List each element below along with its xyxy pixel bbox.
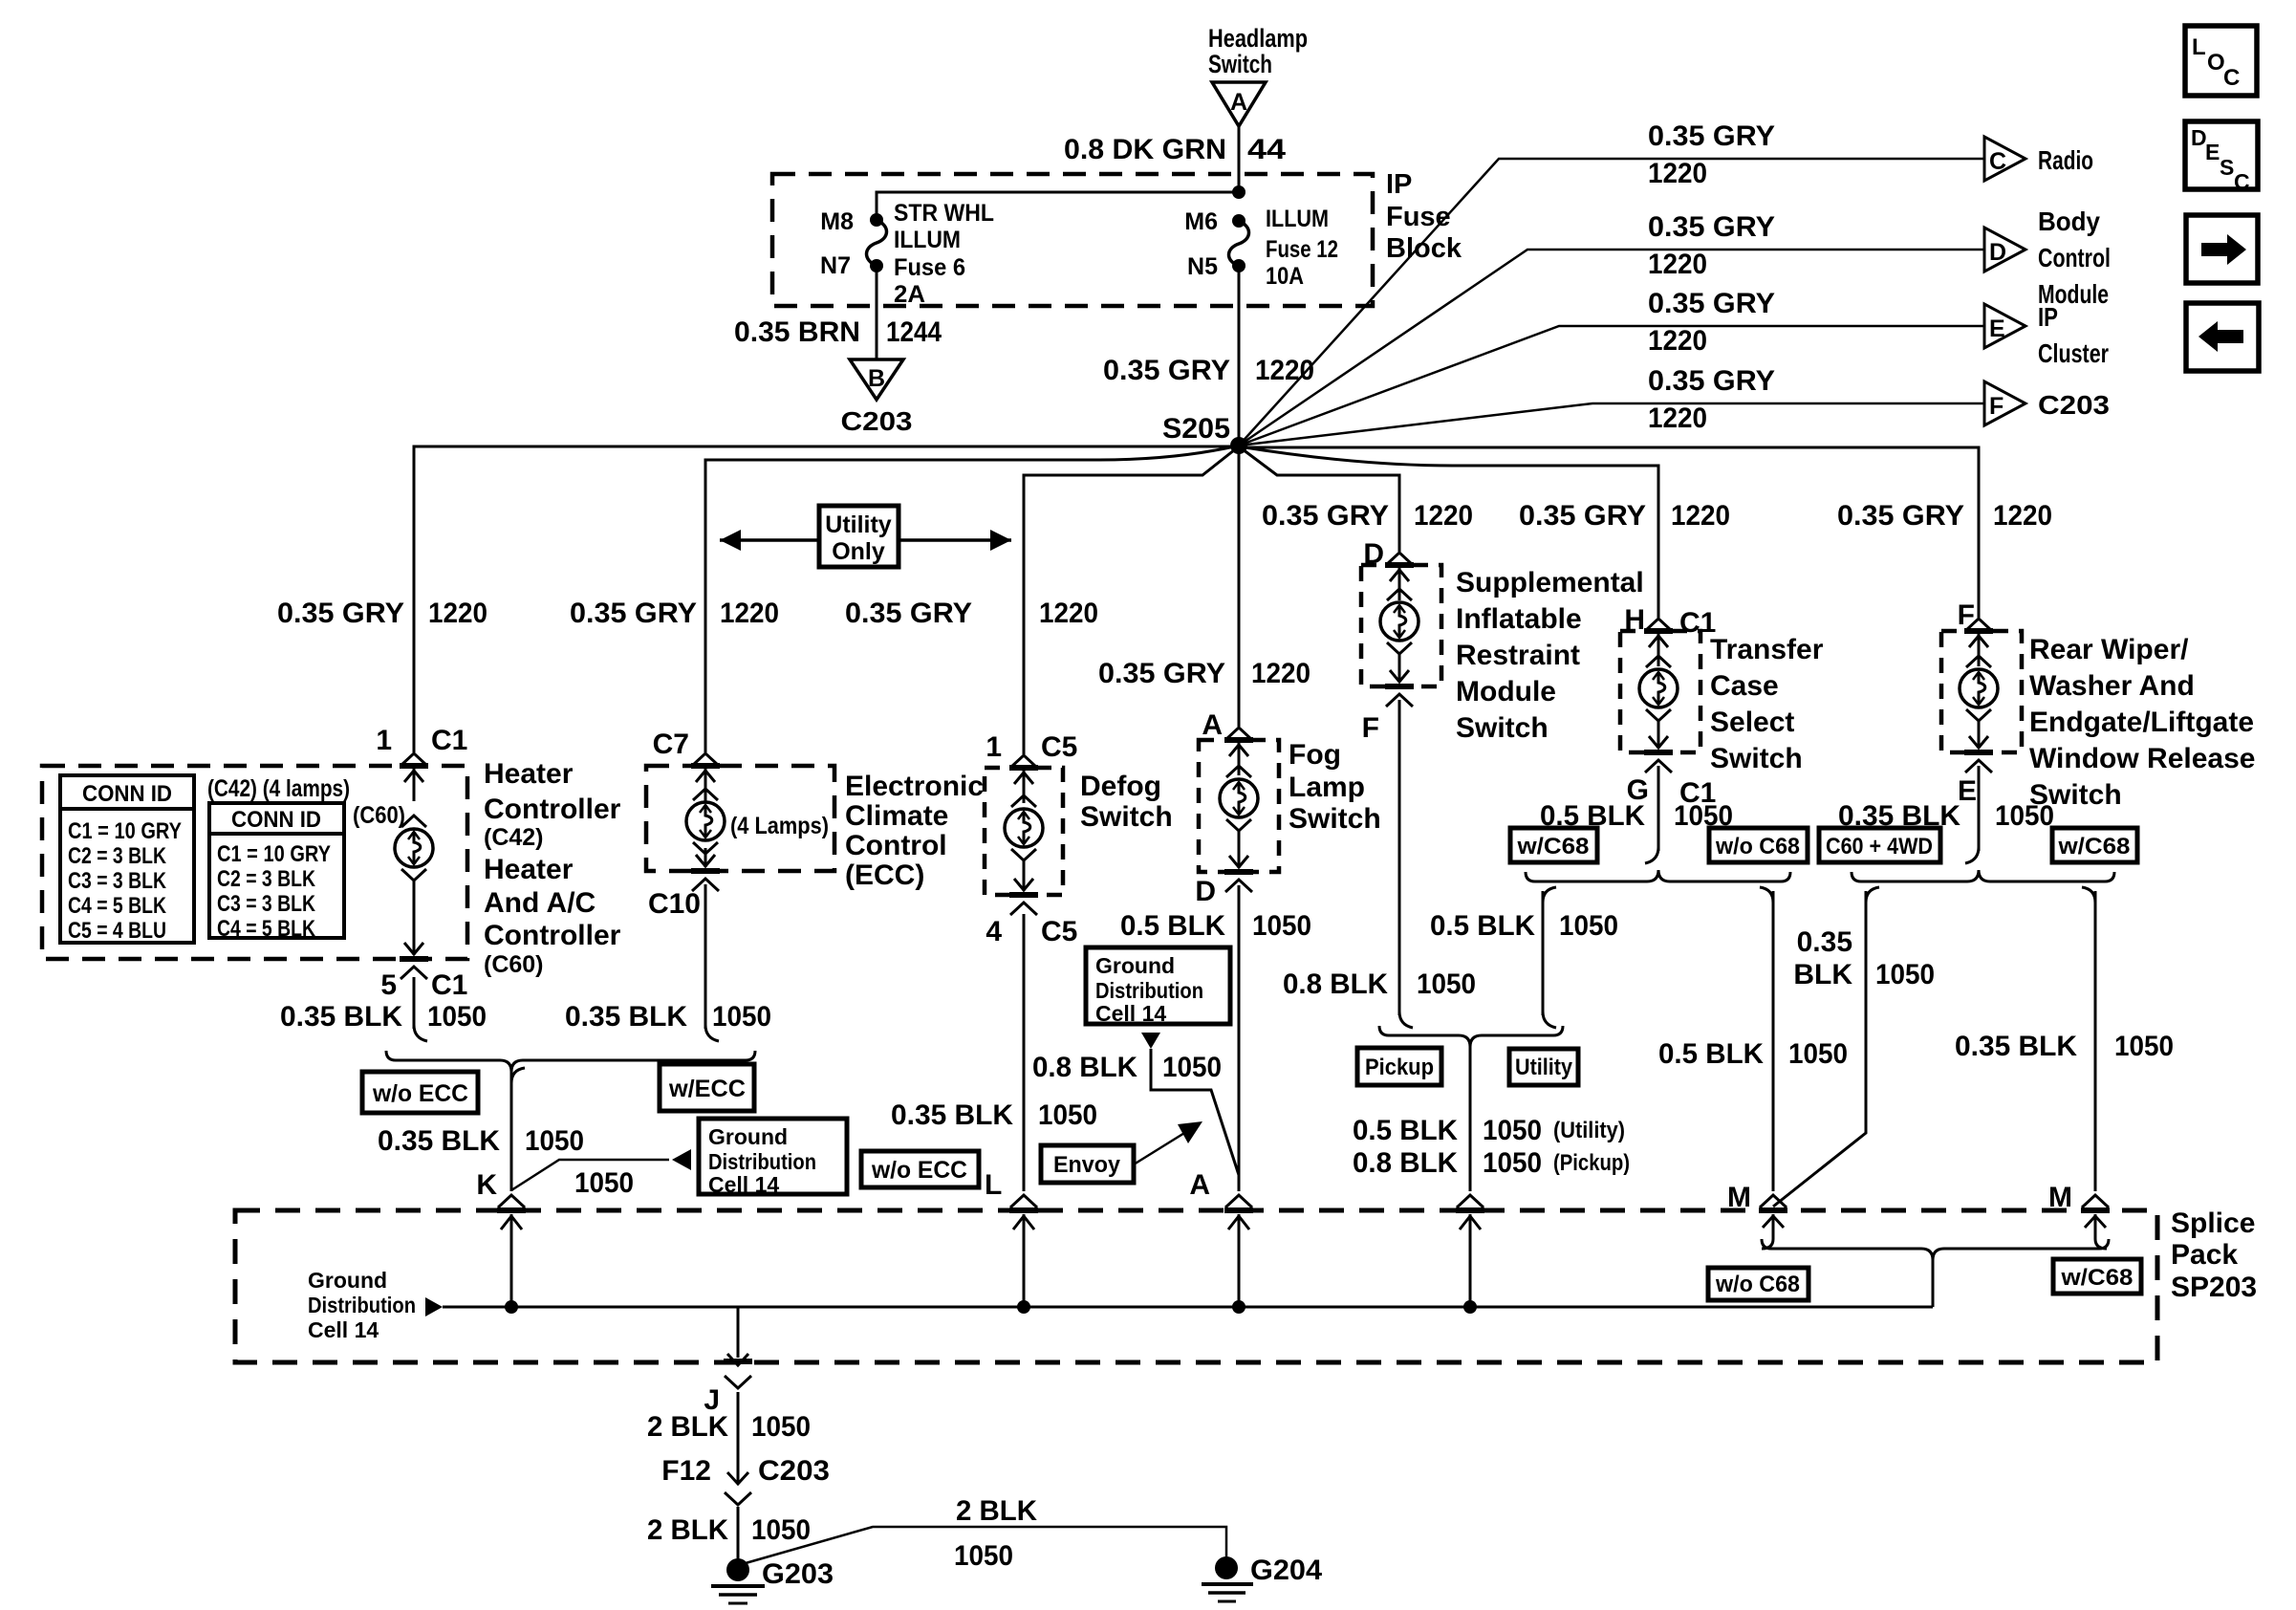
legend box right arrow [2186,215,2258,283]
conn id table 1 [60,775,194,944]
(4 Lamps) note [730,813,829,839]
fuse F6 (STR WHL ILLUM Fuse 6 2A) [867,213,887,272]
svg-text:Fuse: Fuse [1386,202,1451,232]
wire label 0.8 BLK 1050 (Pickup) [1353,1147,1630,1179]
heater controller box (dashed) [42,766,467,959]
svg-text:O: O [2207,50,2225,76]
svg-text:Distribution: Distribution [708,1149,816,1174]
wire label 0.8 BLK 1050 (SIR) [1283,968,1476,1000]
splice entry pickup-utility [1456,1195,1484,1307]
w/C68 tag box (right) [2052,828,2137,862]
svg-text:Control: Control [2038,243,2111,272]
node bus-A [1232,1300,1245,1314]
wire label 0.35 BLK 1050 (C60+4WD branch) [1793,926,1935,990]
wire 2 BLK 1050 (J to C203) [737,1392,740,1484]
splice entry A [1224,1195,1253,1307]
svg-text:1050: 1050 [1483,1147,1542,1179]
svg-text:IP: IP [2038,302,2058,332]
wire label 0.35 GRY 1220 (ECC) [570,598,779,629]
wire gather brace (heater+ECC) [386,1051,755,1072]
svg-text:And A/C: And A/C [484,887,596,919]
svg-text:w/o C68: w/o C68 [1715,1272,1800,1297]
wire label 0.5 BLK 1050 (fog) [1120,910,1311,942]
wire S205 down to fog lamp switch [1238,446,1241,727]
svg-text:C5 = 4 BLU: C5 = 4 BLU [68,918,166,944]
svg-text:A: A [1230,89,1247,116]
svg-text:1050: 1050 [525,1125,584,1157]
connector A (fog top) [1202,709,1223,741]
fuse F12 (ILLUM Fuse 12 10A) [1229,214,1249,272]
svg-text:F: F [1989,393,2004,420]
svg-text:Distribution: Distribution [1095,978,1203,1003]
svg-text:M8: M8 [820,208,854,235]
SIR lamp connector column [1380,553,1419,707]
svg-text:4: 4 [986,916,1002,947]
svg-text:0.5 BLK: 0.5 BLK [1430,910,1535,942]
svg-text:0.35 GRY: 0.35 GRY [1648,211,1775,243]
pin N5 [1187,253,1218,280]
svg-text:2A: 2A [894,281,925,308]
svg-text:C3 = 3 BLK: C3 = 3 BLK [68,868,167,894]
wire label 0.5 BLK 1050 (w/C68 branch) [1430,910,1618,942]
svg-text:Electronic: Electronic [845,771,984,802]
fuse 12 label [1266,206,1338,290]
SIR switch box (dashed) [1361,565,1441,686]
w/o ECC tag box 2 [861,1151,979,1187]
svg-text:Rear Wiper/: Rear Wiper/ [2029,634,2189,665]
svg-text:C4 = 5 BLK: C4 = 5 BLK [217,916,316,942]
w/o C68 tag box [1709,828,1808,862]
svg-text:w/o ECC: w/o ECC [871,1157,967,1184]
svg-text:2 BLK: 2 BLK [647,1514,728,1546]
wire w/C68 branch to pickup-utility brace [1543,887,1556,1028]
svg-text:0.8 BLK: 0.8 BLK [1032,1052,1137,1083]
svg-text:0.8 BLK: 0.8 BLK [1353,1147,1458,1179]
wire 1050 below heater [414,977,427,1041]
connector triangle C [1984,137,2025,181]
svg-text:1050: 1050 [1483,1115,1542,1146]
svg-text:2 BLK: 2 BLK [647,1411,728,1443]
svg-text:(C42): (C42) [484,824,544,851]
wire label 0.35 BLK 1050 (defog) [891,1099,1097,1131]
connector H C1 (transfer top) [1624,604,1716,639]
svg-text:Defog: Defog [1080,771,1161,802]
ECC box (dashed) [646,766,834,871]
svg-text:C: C [1989,148,2006,175]
svg-text:0.35 GRY: 0.35 GRY [1837,500,1964,532]
connector triangle B (C203) [850,359,903,400]
pointer from cell 14 into fog ground wire [1141,1033,1239,1175]
svg-text:1050: 1050 [2114,1031,2174,1062]
svg-text:N5: N5 [1187,253,1218,280]
svg-text:S: S [2220,155,2234,180]
wire label 0.35 BLK 1050 (w/C68 right) [1955,1031,2174,1062]
svg-text:0.5 BLK: 0.5 BLK [1658,1038,1764,1070]
svg-text:C2 = 3 BLK: C2 = 3 BLK [217,866,316,892]
svg-text:0.35 GRY: 0.35 GRY [277,598,404,629]
wire label 0.35 GRY 1220 (BCM) [1648,211,1775,280]
svg-text:M6: M6 [1184,208,1218,235]
C60+4WD tag box [1819,828,1940,862]
Splice Pack SP203 label [2171,1207,2257,1303]
w/o ECC tag box [362,1072,478,1113]
svg-text:1050: 1050 [1875,959,1935,990]
svg-text:Switch: Switch [1456,712,1549,744]
wire label 2 BLK 1050 (upper) [647,1411,811,1443]
IP fuse block (dashed box) [772,174,1373,306]
svg-text:Switch: Switch [1080,801,1173,833]
splice terminal M label (right) [2048,1182,2072,1213]
svg-text:L: L [2192,34,2206,60]
svg-text:1050: 1050 [712,1001,771,1033]
wire label 0.35 GRY 1220 (defog) [845,598,1098,629]
pin M8 [820,208,854,235]
svg-text:0.5 BLK: 0.5 BLK [1353,1115,1458,1146]
svg-text:44: 44 [1247,134,1286,165]
transfer case switch box (dashed) [1620,631,1700,752]
svg-text:5: 5 [380,969,397,1001]
headlamp switch label [1208,24,1308,78]
svg-text:STR WHL: STR WHL [894,200,994,227]
svg-text:0.35 BLK: 0.35 BLK [565,1001,687,1033]
node bus-pickup [1463,1300,1477,1314]
transfer gather brace [1526,870,1790,881]
svg-text:Inflatable: Inflatable [1456,603,1582,635]
svg-text:(C60): (C60) [484,951,544,978]
svg-text:Fuse 6: Fuse 6 [894,254,965,281]
ground distribution cell 14 box (left) [699,1119,847,1197]
svg-text:w/o ECC: w/o ECC [372,1080,468,1107]
svg-text:0.35 BLK: 0.35 BLK [280,1001,402,1033]
svg-text:Utility: Utility [1515,1055,1573,1080]
splice entry L [1009,1195,1038,1307]
wire S205 to defog switch C5 [1024,446,1239,754]
Radio label [2038,145,2093,175]
splice bus wire [443,1306,1933,1309]
svg-text:0.35 GRY: 0.35 GRY [1098,658,1225,689]
wire label 0.35 BLK 1050 (rear wiper) [1838,800,2054,832]
wire 1050 from fog to splice A [1238,885,1241,1191]
svg-text:D: D [1363,538,1384,570]
svg-text:Body: Body [2038,207,2100,236]
(C60) pin label [353,802,405,829]
wire C60+4WD branch to splice M [1773,887,1879,1207]
connector C7 label [653,729,689,760]
splice terminal J [704,1384,720,1416]
svg-text:Pickup: Pickup [1365,1055,1434,1080]
svg-text:Cluster: Cluster [2038,338,2109,368]
splice entry M right [2081,1195,2110,1249]
svg-text:Controller: Controller [484,794,621,825]
fog lamp switch box (dashed) [1199,740,1279,872]
wire label 0.35 BLK 1050 (ECC) [565,1001,771,1033]
wire below rear wiper [1965,766,1979,863]
wire S205 to SIR module switch [1239,446,1399,552]
svg-text:C203: C203 [841,406,913,436]
svg-text:Lamp: Lamp [1289,772,1365,803]
wire to IP cluster (E) [1239,326,1984,446]
connector G C1 (transfer bottom) [1627,774,1717,809]
ECC label [845,771,984,891]
svg-text:Climate: Climate [845,800,948,832]
connector F (rear wiper top) [1958,599,1975,631]
wire 0.5 BLK 1050 (transfer) [1645,766,1658,863]
svg-text:(4 Lamps): (4 Lamps) [730,813,829,839]
w/C68 tag box (left) [1510,828,1597,862]
svg-text:G203: G203 [762,1558,834,1590]
svg-text:1050: 1050 [1252,910,1311,942]
wire label 0.35 GRY 1220 (rear wiper) [1837,500,2052,532]
svg-text:1: 1 [376,725,392,756]
svg-text:C203: C203 [758,1455,830,1487]
svg-text:C: C [2234,169,2250,194]
splice entry M left [1759,1195,1787,1249]
svg-text:C7: C7 [653,729,689,760]
svg-text:(C42) (4 lamps): (C42) (4 lamps) [207,775,350,802]
ground G204 [1202,1555,1322,1601]
C203 label at F [2038,390,2110,420]
svg-text:Supplemental: Supplemental [1456,567,1644,598]
svg-text:IP: IP [1386,169,1412,200]
wire to radio (C) [1239,159,1984,446]
node bus-K [505,1300,518,1314]
wire label 0.35 GRY 1220 (F C203) [1648,365,1775,434]
wire label 0.5 BLK 1050 (M branch) [1658,1038,1848,1070]
svg-text:Utility: Utility [825,511,892,538]
svg-text:Switch: Switch [1208,50,1272,78]
svg-text:D: D [1195,876,1216,907]
wire w/o C68 branch to splice M [1760,887,1773,1191]
ground distribution cell 14 box (right) [1086,947,1230,1026]
svg-text:Washer And: Washer And [2029,670,2195,702]
svg-text:1050: 1050 [1559,910,1618,942]
pin M6 [1184,208,1218,235]
svg-text:Ground: Ground [308,1268,387,1293]
svg-text:0.35 GRY: 0.35 GRY [570,598,697,629]
svg-text:1220: 1220 [1648,325,1707,357]
svg-text:(C60): (C60) [353,802,405,829]
svg-text:F: F [1362,712,1379,744]
connector E (rear wiper bottom) [1958,775,1977,807]
w/C68 tag (in splice) [2053,1259,2141,1294]
svg-text:1244: 1244 [886,316,942,348]
svg-text:0.35 GRY: 0.35 GRY [845,598,972,629]
wire to C203 (F) [1239,403,1985,446]
svg-text:C10: C10 [648,888,701,920]
svg-text:Cell 14: Cell 14 [308,1317,379,1342]
svg-text:Restraint: Restraint [1456,640,1580,671]
heater controller label [484,758,621,978]
wire 1244 from N7 to C203 [876,266,878,359]
pickup-utility gather brace [1379,1026,1563,1047]
svg-text:Heater: Heater [484,854,574,885]
svg-text:C1: C1 [431,725,467,756]
Utility tag box [1509,1049,1578,1085]
svg-text:G204: G204 [1250,1555,1322,1586]
splice M gather brace [1762,1239,2109,1307]
splice terminal M label (left) [1727,1182,1751,1213]
legend box LOC [2185,26,2257,96]
svg-text:0.8 BLK: 0.8 BLK [1283,968,1388,1000]
svg-text:ILLUM: ILLUM [894,227,961,253]
svg-text:L: L [985,1169,1002,1201]
svg-text:(ECC): (ECC) [845,859,924,891]
wire label 0.35 GRY 1220 (heater) [277,598,487,629]
ground distribution cell 14 note (in splice pack) [308,1268,443,1342]
ground G203 [711,1558,834,1603]
svg-text:Control: Control [845,830,947,861]
wire 2 BLK 1050 to G204 [746,1527,1226,1563]
(C42)(4 lamps) note [207,775,350,802]
svg-text:K: K [476,1169,497,1201]
wire S205 to heater controller C1 [414,446,1239,752]
splice terminal L [985,1169,1002,1201]
svg-text:Envoy: Envoy [1053,1152,1121,1178]
svg-text:C203: C203 [2038,390,2110,420]
wire S205 to rear wiper switch [1239,447,1979,618]
wire label 2 BLK 1050 (lower) [647,1514,811,1546]
wire pickup-utility to splice [1469,1045,1472,1191]
svg-text:(Pickup): (Pickup) [1553,1150,1630,1176]
pin 1 / connector C5 (defog top) [986,731,1077,763]
svg-text:1220: 1220 [1414,500,1473,532]
svg-text:Heater: Heater [484,758,574,790]
wire label 0.35 GRY 1220 (SIR) [1262,500,1473,532]
wire 44 from A to fuse block [1238,126,1241,192]
pin N7 [820,252,851,279]
wire 1220 from N5 to S205 [1238,266,1241,446]
wire label 0.8 DK GRN 44 [1064,134,1286,165]
svg-text:Fog: Fog [1289,739,1341,771]
wire label 0.5 BLK 1050 (Utility) [1353,1115,1625,1146]
pin 1 / connector C1 (heater top) [376,725,467,756]
svg-text:C3 = 3 BLK: C3 = 3 BLK [217,891,316,917]
wire label 0.35 GRY 1220 (transfer) [1519,500,1730,532]
C203 label under B [841,406,913,436]
svg-text:0.35 GRY: 0.35 GRY [1648,120,1775,152]
svg-text:Cell 14: Cell 14 [708,1172,779,1197]
wire 1050 from defog to splice L [1023,914,1026,1191]
svg-text:w/ECC: w/ECC [668,1076,746,1102]
svg-text:1220: 1220 [1251,658,1310,689]
Fog Lamp Switch label [1289,739,1381,835]
svg-text:Headlamp: Headlamp [1208,24,1308,53]
svg-text:10A: 10A [1266,263,1304,290]
svg-text:0.35 BLK: 0.35 BLK [891,1099,1013,1131]
svg-text:C5: C5 [1041,731,1077,763]
rear wiper switch box (dashed) [1941,631,2022,752]
svg-text:1220: 1220 [1648,402,1707,434]
rear wiper gather brace [1852,870,2114,881]
svg-text:1220: 1220 [1648,158,1707,189]
svg-text:BLK: BLK [1793,959,1852,990]
svg-text:Case: Case [1710,670,1779,702]
svg-text:0.35 GRY: 0.35 GRY [1519,500,1646,532]
wire label 0.35 GRY 1220 (IP cluster) [1648,288,1775,357]
conn id table 2 [209,803,344,942]
wire 1050 below ECC [705,884,719,1041]
connector triangle F [1984,381,2025,425]
wire S205 to ECC C7 [705,446,1239,752]
wire 1050 from SIR to brace [1399,700,1413,1028]
svg-text:Fuse 12: Fuse 12 [1266,236,1338,263]
IP fuse block label [1386,169,1462,264]
node bus-L [1017,1300,1030,1314]
Utility Only callout box with arrows [720,506,1011,567]
SIR label [1456,567,1644,744]
svg-text:Controller: Controller [484,920,621,951]
svg-text:w/C68: w/C68 [2060,1265,2133,1291]
svg-text:SP203: SP203 [2171,1272,2257,1303]
Transfer Case Select Switch label [1710,634,1824,774]
connector triangle E [1984,304,2025,348]
wire to body control module (D) [1239,250,1984,446]
svg-text:1050: 1050 [1038,1099,1097,1131]
svg-text:Only: Only [832,538,885,565]
svg-text:C4 = 5 BLK: C4 = 5 BLK [68,893,167,919]
svg-text:C: C [2223,65,2240,91]
svg-text:1050: 1050 [1162,1052,1222,1083]
wire label 0.35 BRN 1244 [734,316,942,348]
w/o C68 tag (in splice) [1708,1268,1809,1300]
connector C10 label [648,888,701,920]
ECC lamp connector column [686,753,725,891]
wire 1050 to splice K [511,1068,525,1191]
svg-text:1050: 1050 [1995,800,2054,832]
legend box DESC [2185,121,2258,194]
Body Control Module label [2038,207,2111,309]
svg-text:F12: F12 [661,1455,711,1487]
svg-text:C1: C1 [431,969,467,1001]
svg-text:1220: 1220 [428,598,487,629]
wire label 0.35 GRY 1220 (main) [1103,355,1314,386]
splice terminal K [476,1169,497,1201]
fog lamp connector column [1220,728,1258,892]
transfer case lamp connector column [1639,619,1678,772]
svg-text:Switch: Switch [1289,803,1381,835]
svg-text:Radio: Radio [2038,145,2093,175]
svg-text:1: 1 [986,731,1002,763]
w/ECC tag box [660,1064,754,1111]
wire from junction to fuse 6 [877,192,1239,216]
splice entry K [497,1195,526,1307]
svg-text:0.5 BLK: 0.5 BLK [1120,910,1225,942]
svg-text:E: E [2205,140,2220,164]
svg-text:1050: 1050 [1788,1038,1848,1070]
Defog Switch label [1080,771,1173,833]
svg-text:S205: S205 [1162,413,1230,445]
svg-text:0.35: 0.35 [1797,926,1852,958]
svg-text:D: D [1989,239,2006,266]
svg-text:1220: 1220 [1671,500,1730,532]
wire label 1050 (G204) [954,1540,1013,1572]
heater controller connector column [395,753,433,979]
svg-text:CONN ID: CONN ID [82,781,172,807]
wire label 0.35 GRY 1220 (fog) [1098,658,1310,689]
svg-text:A: A [1202,709,1223,741]
svg-text:1050: 1050 [574,1167,634,1199]
svg-text:C1 = 10 GRY: C1 = 10 GRY [217,841,331,867]
connector triangle A (headlamp switch) [1212,82,1266,126]
svg-text:1220: 1220 [720,598,779,629]
wire label 0.8 BLK 1050 (cell14 drop) [1032,1052,1222,1083]
svg-text:w/C68: w/C68 [2057,834,2130,859]
svg-text:1050: 1050 [1417,968,1476,1000]
wire label 0.35 BLK 1050 (heater) [280,1001,487,1033]
connector D (SIR top) [1363,538,1384,570]
svg-text:1050: 1050 [954,1540,1013,1572]
svg-text:Select: Select [1710,707,1794,738]
